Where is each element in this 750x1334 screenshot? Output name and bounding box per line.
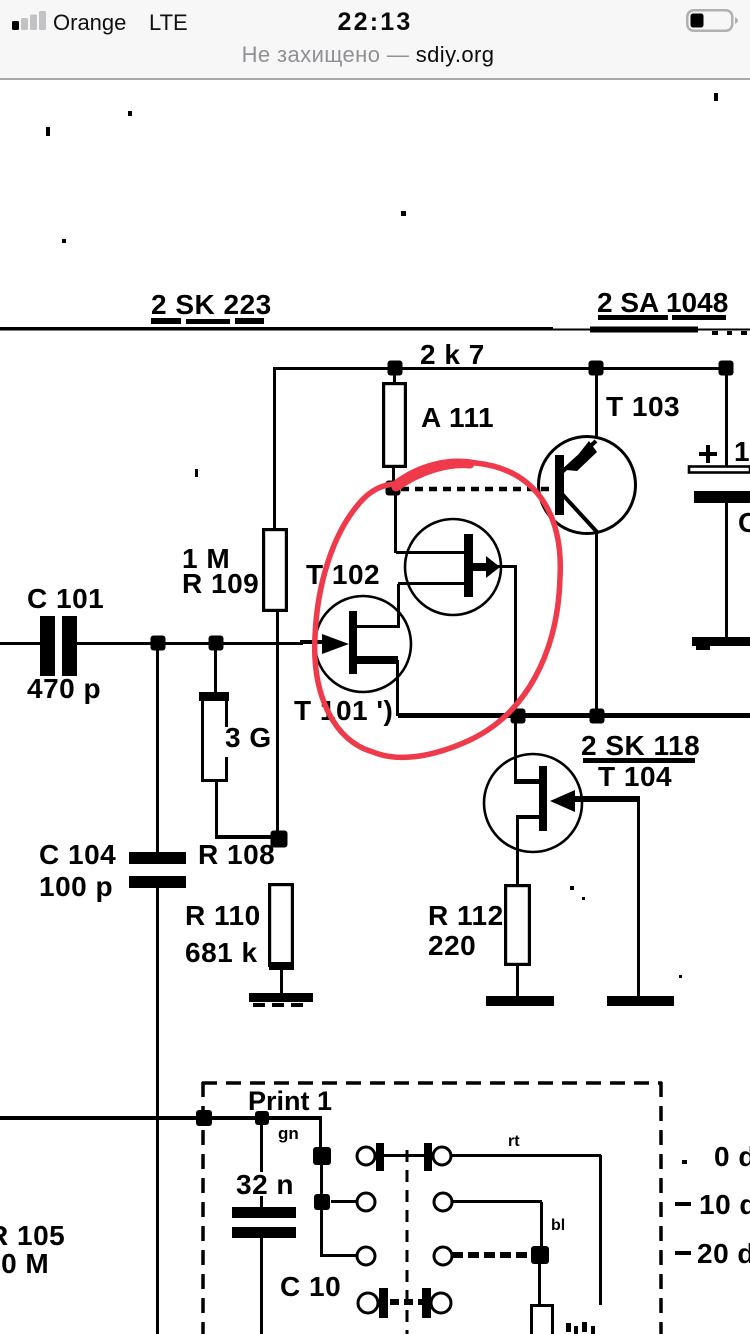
connector row 1	[313, 1147, 331, 1165]
wire: upper horizontal net	[274, 367, 728, 370]
wire: T102 gate to lower rail	[497, 565, 515, 568]
svg-text:C 104: C 104	[39, 839, 116, 870]
svg-text:32 n: 32 n	[236, 1169, 294, 1200]
svg-text:T 104: T 104	[598, 761, 672, 792]
node: junction lower rail / T104	[511, 709, 526, 724]
svg-text:10 d: 10 d	[699, 1189, 750, 1220]
svg-text:bl: bl	[551, 1217, 565, 1234]
wire: lower horizontal rail	[398, 713, 750, 718]
svg-text:R 112: R 112	[428, 900, 504, 931]
svg-text:T 102: T 102	[306, 559, 380, 590]
wire: T103 collector down to lower rail	[595, 532, 598, 716]
resistor at bottom edge (partial)	[532, 1306, 553, 1334]
node: junction upper net right	[719, 361, 734, 376]
transistor T101 (JFET)	[315, 596, 411, 692]
transistor T102 (JFET)	[405, 519, 501, 615]
resistor R110	[270, 885, 293, 966]
capacitor C (electrolytic) top plate	[689, 467, 750, 473]
wire: top supply rail	[0, 327, 553, 331]
connector row 3	[320, 1254, 357, 1257]
wire: C104 top lead	[156, 643, 159, 853]
signal bars	[10, 10, 50, 31]
transistor T103 (2SA1048 PNP)	[539, 437, 636, 534]
resistor R111	[384, 384, 406, 467]
svg-text:R 110: R 110	[185, 900, 261, 931]
wire: R108 top stub	[214, 643, 217, 696]
wire: T104 gate down	[637, 800, 640, 997]
capacitor C101	[40, 616, 55, 676]
connector row 4	[358, 1293, 378, 1313]
dashed divider inside print	[406, 1150, 409, 1334]
transistor T104 (2SK118 JFET)	[514, 716, 517, 782]
node: junction T103 emitter top	[589, 361, 604, 376]
wire: R111 top stub	[393, 368, 396, 384]
node: junction R111 top	[388, 361, 403, 376]
wire: row1 down	[599, 1155, 602, 1305]
ground: below R110	[249, 993, 313, 1002]
svg-text:2 SK 223: 2 SK 223	[151, 289, 272, 320]
node: junction gate net / C104	[151, 636, 166, 651]
capacitor C104	[129, 852, 186, 864]
ground: T104 gate	[607, 996, 674, 1006]
carrier name	[53, 10, 126, 36]
svg-text:R 109: R 109	[182, 568, 259, 599]
connector row 2	[314, 1194, 330, 1210]
capacitor C (electrolytic) bottom plate	[694, 491, 750, 503]
wire: vertical from upper net down to R109	[273, 367, 276, 529]
node: junction R111 bottom / T103 base net	[386, 481, 401, 496]
node: junction gate net / R108	[209, 636, 224, 651]
battery	[686, 9, 742, 32]
svg-text:2 k 7: 2 k 7	[420, 339, 485, 370]
label -20 d	[675, 1251, 691, 1255]
svg-text:C 101: C 101	[27, 583, 104, 614]
wire: input left	[0, 642, 40, 645]
label -10 d	[675, 1202, 691, 1206]
wire: bottom input net	[0, 1116, 322, 1120]
svg-text:2 SK 118: 2 SK 118	[581, 730, 700, 761]
wire: corner down to connector	[319, 1116, 322, 1158]
wire: cap bottom lead	[725, 503, 728, 637]
wire: T104 source	[516, 815, 541, 819]
dashed box Print 1	[202, 1081, 662, 1085]
node: junction C10	[255, 1111, 269, 1125]
node: junction at print border	[196, 1110, 212, 1126]
annotation: red hand-drawn circle around T101/T102	[315, 461, 561, 757]
svg-text:R 105: R 105	[0, 1220, 65, 1251]
svg-text:T 103: T 103	[606, 391, 680, 422]
wire: cap top lead	[725, 368, 728, 467]
svg-text:0 d: 0 d	[714, 1141, 750, 1172]
svg-text:C1: C1	[738, 507, 750, 538]
wire: T103 emitter to upper net	[595, 368, 598, 438]
svg-text:470 p: 470 p	[27, 673, 101, 704]
svg-text:2 SA 1048: 2 SA 1048	[597, 287, 728, 318]
svg-text:220: 220	[428, 930, 476, 961]
svg-text:10: 10	[734, 436, 750, 467]
resistor R112	[506, 886, 530, 965]
svg-text:3 G: 3 G	[225, 722, 272, 753]
wire: T102 source to T101 drain	[397, 584, 400, 628]
capacitor C10	[260, 1118, 263, 1172]
address bar text	[0, 42, 736, 68]
svg-text:A 111: A 111	[421, 402, 494, 433]
status bar	[0, 0, 750, 80]
dust specks	[46, 127, 50, 136]
wire: T101 source down to lower rail	[396, 660, 399, 716]
svg-text:100 p: 100 p	[39, 871, 113, 902]
svg-text:Print 1: Print 1	[248, 1086, 332, 1116]
wire: R108 bottom to junction	[215, 780, 218, 839]
wire: R110 bottom stub	[280, 968, 283, 994]
svg-text:681 k: 681 k	[185, 937, 258, 968]
ground: below cap	[692, 637, 750, 646]
node: junction lower rail / T103	[590, 709, 605, 724]
svg-text:R 108: R 108	[198, 839, 275, 870]
wire: dashed base wire to T103	[401, 487, 553, 492]
node: junction R108/R109/R110	[271, 831, 288, 848]
svg-text:T 101 '): T 101 ')	[294, 695, 393, 726]
svg-text:gn: gn	[278, 1124, 299, 1143]
wire: R112 bottom stub	[516, 966, 519, 996]
svg-text:rt: rt	[508, 1133, 520, 1150]
svg-text:C 10: C 10	[280, 1271, 341, 1302]
svg-text:20 d: 20 d	[697, 1238, 750, 1269]
wire: R109 bottom down across gate net to R110 junction	[276, 612, 279, 839]
svg-text:10 M: 10 M	[0, 1248, 49, 1279]
scribble bottom	[566, 1323, 571, 1332]
resistor R108 (3 G)	[202, 696, 226, 780]
ground: below R112	[486, 996, 554, 1006]
wire: R111 bottom stub	[392, 468, 395, 484]
clock	[0, 8, 750, 37]
wire: C104 bottom lead long	[156, 888, 159, 1334]
resistor R109	[264, 530, 287, 611]
wire: from R111 bottom junction down to T102 drain	[394, 489, 397, 553]
wire: gate net horizontal	[75, 642, 303, 645]
label + polarity	[699, 452, 717, 456]
